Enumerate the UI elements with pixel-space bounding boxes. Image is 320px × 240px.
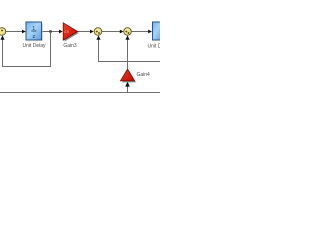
wire: sum S0 output to Unit Delay input [5, 30, 26, 34]
svg-text:0.9: 0.9 [64, 30, 69, 34]
svg-text:Gain4: Gain4 [137, 72, 151, 78]
sum S1 [94, 28, 102, 36]
wire: sum S2 output to Unit Delay1 input [132, 30, 153, 34]
wire: Unit Delay output to Gain3 input [42, 30, 63, 34]
node: branch junction on Unit Delay output [49, 30, 51, 32]
sum S0 (clipped at left edge) [0, 28, 6, 36]
wire: Gain4 output up to sum S2 bottom input [125, 35, 129, 68]
wire: bottom feedback line into Gain4 input [125, 82, 130, 93]
block: Gain3 (right-pointing triangle) [63, 23, 79, 42]
svg-text:z: z [32, 34, 35, 40]
wire: feedback branch down-left to sum S0 bottom input [0, 32, 50, 67]
block: Unit Delay1 (clipped at right edge) [153, 22, 163, 40]
svg-text:Gain3: Gain3 [63, 43, 77, 49]
wire: Gain3 output to sum S1 input [78, 30, 94, 34]
wire: bottom horizontal bus line [0, 92, 160, 94]
block: Unit Delay [26, 22, 43, 41]
svg-text:Unit Delay: Unit Delay [22, 43, 46, 49]
sum S2 [124, 28, 132, 36]
svg-text:Unit Delay1: Unit Delay1 [148, 44, 161, 50]
wire: feedback from right edge to sum S1 bottom input [96, 35, 160, 61]
wire: sum S1 output to sum S2 input [102, 30, 124, 34]
block: Gain4 (up-pointing triangle) [121, 69, 137, 82]
